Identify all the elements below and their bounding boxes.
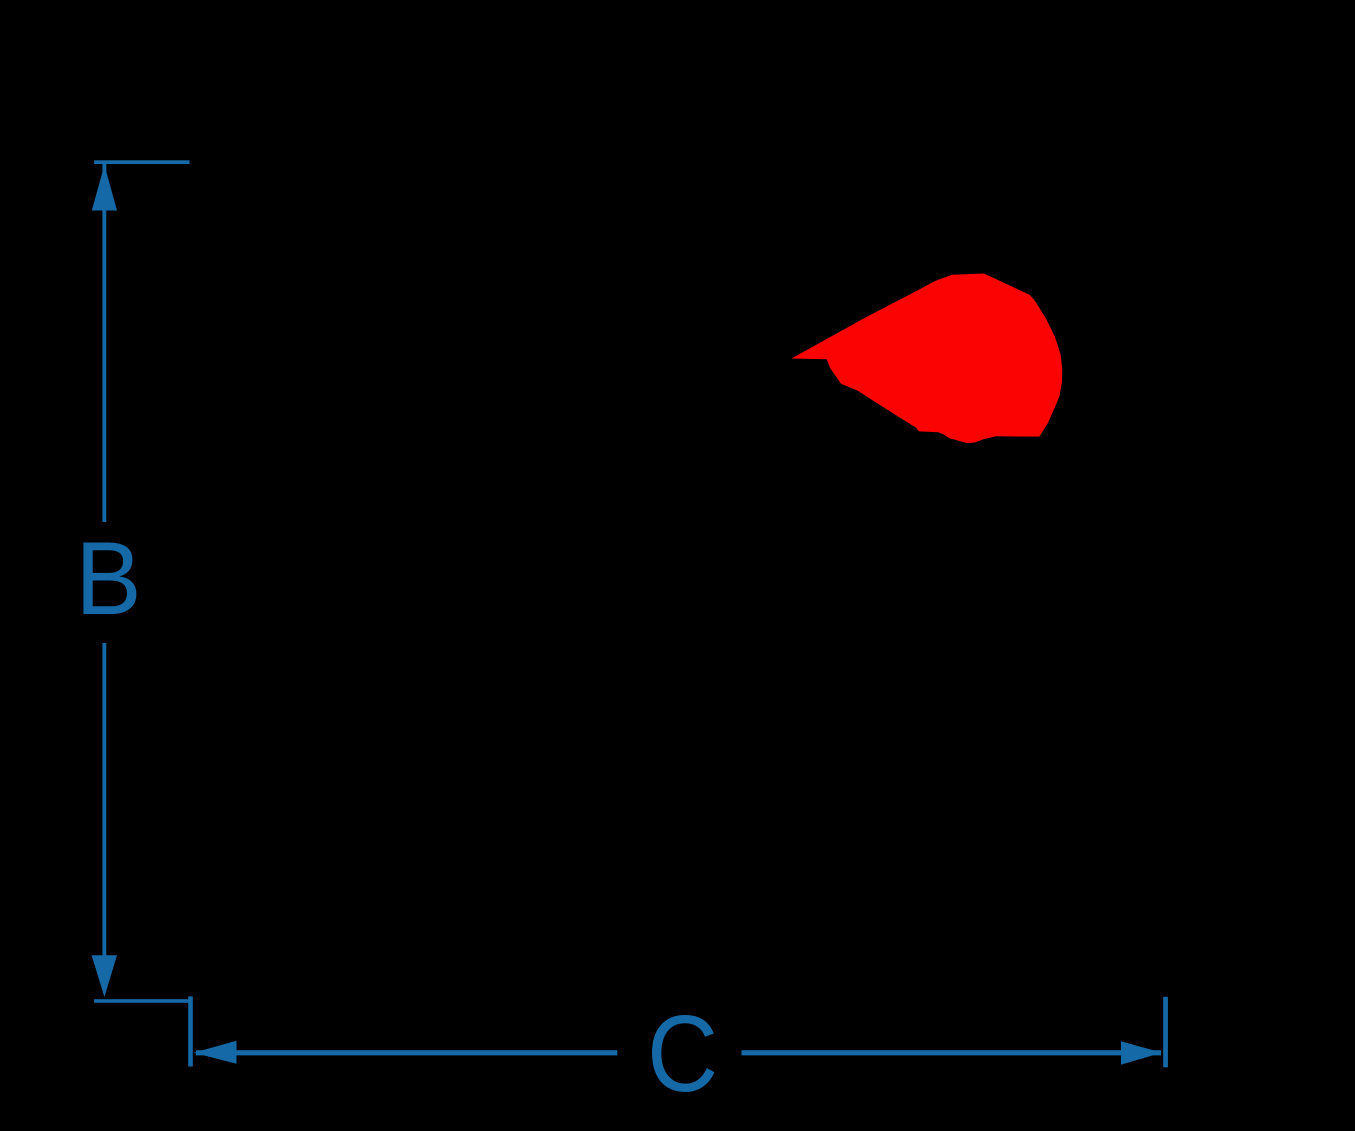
svg-text:C: C (647, 993, 718, 1115)
svg-text:B: B (75, 520, 141, 636)
